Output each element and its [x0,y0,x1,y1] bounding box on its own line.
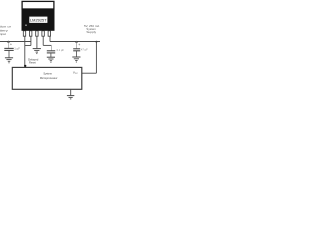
wire: delayed reset run pin1 down to microprocessor [24,36,26,67]
system microprocessor box [12,67,82,89]
wire: pin4 lead down [42,36,44,45]
ground G5 (microprocessor) [67,96,74,99]
U1 pin 5 [48,31,50,36]
svg-text:47 µF: 47 µF [81,47,88,51]
capacitor C1 polarity plus [10,43,12,45]
capacitor C1 stem upper [8,42,10,49]
svg-text:Supply: Supply [86,30,96,34]
ground G3 (C2) [47,57,55,62]
U1 pin 4 [42,31,44,36]
svg-text:Reset: Reset [29,61,36,65]
wire: pin5 lead down [49,36,51,42]
capacitor C3 polarity plus [79,44,81,46]
wire: box to ground stem [70,89,72,95]
capacitor C3 stem upper [76,42,78,49]
svg-text:nput: nput [0,32,6,36]
capacitor C1 plates [4,47,13,49]
capacitor C3 stem lower [76,51,78,57]
wire: output rail to right edge [50,41,100,43]
svg-text:0.1 µF: 0.1 µF [57,48,65,52]
wire: Vcc feed into box [82,72,97,74]
capacitor C2 stem upper [50,45,52,50]
capacitor C2 plates [47,50,55,52]
ground G1 (input cap) [5,58,13,63]
U1 pin 3 [36,31,38,36]
ground G2 (pin 3) [33,49,41,54]
svg-text:Microprocessor: Microprocessor [40,76,58,80]
node: reset junction dot on box edge [24,65,26,67]
ground G4 (C3) [72,57,80,62]
U1 part label LM2925T [29,17,47,23]
svg-text:1 µF: 1 µF [14,47,20,51]
node: output corner dot [95,41,97,43]
wire: pin3 to ground [36,36,38,48]
wire: reset bridge pin2 to pin1 wire [25,45,31,47]
wire: pin2 lead down [30,36,32,46]
capacitor C3 plates [73,48,80,50]
U1 body pin-1 marker dot [25,25,26,26]
wire: output down right edge [95,42,97,74]
U1 pin 2 [30,31,32,36]
svg-text:LM2925T: LM2925T [30,19,47,23]
capacitor C1 stem lower [8,50,10,57]
node: input junction dot [7,41,9,43]
wire: bridge pin4 to C2 [43,44,51,46]
regulator U1 TO-220 body [22,9,55,31]
wire: input rail [0,41,31,43]
capacitor C2 stem lower [50,53,52,57]
U1 pin 1 [23,31,25,36]
regulator U1 TO-220 tab [22,1,54,9]
node: C3 junction dot [75,41,77,43]
